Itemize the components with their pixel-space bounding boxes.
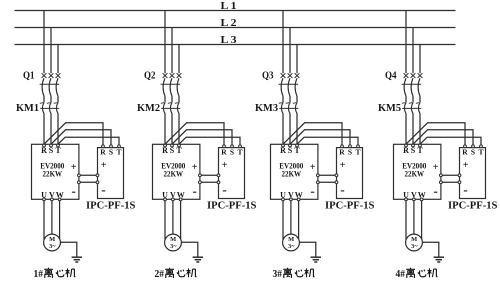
svg-text:1#: 1# [34, 269, 44, 280]
wire [282, 96, 284, 103]
contactor KM1 [40, 103, 59, 114]
wire L3 tap to Q4 pole 3 [419, 45, 421, 74]
contactor KM2 [161, 103, 180, 114]
filter FLT2 IPC-PF-1S [217, 145, 244, 199]
wire [296, 96, 298, 103]
wire W to motor [421, 201, 423, 239]
wire + link [201, 174, 217, 176]
svg-text:22KW: 22KW [282, 168, 302, 178]
label 1#离心机 [34, 268, 76, 280]
svg-text:+: + [463, 160, 469, 171]
svg-text:KM3: KM3 [255, 103, 278, 114]
wire L1 tap to Q3 pole 1 [282, 11, 284, 74]
breaker Q4 [402, 73, 423, 96]
wire [419, 96, 421, 103]
wire [289, 96, 291, 103]
wire S to filter [51, 130, 111, 145]
svg-text:S: S [109, 147, 113, 156]
svg-text:+: + [310, 162, 316, 173]
svg-text:S: S [288, 146, 293, 155]
wire U to motor [43, 201, 45, 240]
svg-text:T: T [417, 146, 423, 155]
svg-text:L 1: L 1 [221, 0, 237, 12]
motor M2 [165, 234, 182, 251]
svg-text:3~: 3~ [411, 243, 418, 250]
wire W to motor [298, 201, 300, 239]
svg-text:KM2: KM2 [137, 103, 160, 114]
svg-text:Q4: Q4 [385, 70, 397, 81]
bus L3 [15, 44, 456, 46]
breaker Q3 [279, 73, 300, 96]
svg-text:22KW: 22KW [405, 168, 425, 178]
wire [178, 113, 180, 144]
wire - link [201, 181, 217, 183]
label 3#离心机 [273, 268, 315, 280]
wire T to filter [297, 137, 358, 145]
wire [412, 96, 414, 103]
filter FLT4 IPC-PF-1S [458, 145, 485, 199]
svg-text:3~: 3~ [288, 243, 295, 250]
wire S to filter [172, 130, 232, 145]
wire [43, 113, 45, 144]
svg-text:S: S [411, 146, 416, 155]
wire - link [80, 181, 96, 183]
wire L2 tap to Q4 pole 2 [412, 28, 414, 74]
wire L2 tap to Q3 pole 2 [289, 28, 291, 74]
wire [50, 96, 52, 103]
svg-text:T: T [237, 147, 242, 156]
motor M3 [283, 234, 300, 251]
svg-text:R: R [221, 147, 227, 156]
wire L3 tap to Q1 pole 3 [57, 45, 59, 74]
svg-text:IPC-PF-1S: IPC-PF-1S [86, 200, 136, 211]
wire [164, 96, 166, 103]
contactor KM3 [279, 103, 298, 114]
wire L1 tap to Q1 pole 1 [43, 11, 45, 74]
svg-text:R: R [100, 147, 106, 156]
svg-text:R: R [403, 146, 409, 155]
wire V to motor [172, 201, 174, 234]
svg-text:Q1: Q1 [23, 70, 35, 81]
svg-text:+: + [71, 162, 77, 173]
wire L1 tap to Q4 pole 1 [405, 11, 407, 74]
svg-text:S: S [230, 147, 234, 156]
svg-text:+: + [222, 160, 228, 171]
svg-text:S: S [49, 146, 54, 155]
wire [171, 96, 173, 103]
motor M4 [406, 234, 423, 251]
bus L1 [15, 10, 456, 12]
svg-text:L 3: L 3 [221, 34, 238, 46]
motor M1 [44, 234, 61, 251]
svg-text:T: T [176, 146, 182, 155]
svg-text:M: M [49, 236, 55, 243]
bus L2 [15, 27, 456, 29]
svg-text:22KW: 22KW [43, 168, 63, 178]
filter FLT3 IPC-PF-1S [335, 145, 362, 199]
wire W to motor [180, 201, 182, 239]
wire motor to ground [60, 242, 76, 256]
wire L3 tap to Q3 pole 3 [296, 45, 298, 74]
breaker Q1 [40, 73, 61, 96]
svg-text:IPC-PF-1S: IPC-PF-1S [448, 200, 498, 211]
svg-text:T: T [116, 147, 121, 156]
wire R to filter [406, 123, 465, 145]
svg-text:IPC-PF-1S: IPC-PF-1S [207, 200, 257, 211]
wire U to motor [164, 201, 166, 240]
wire L3 tap to Q2 pole 3 [178, 45, 180, 74]
inverter U3 EV2000 22KW [271, 144, 320, 201]
wire [57, 113, 59, 144]
svg-text:Q2: Q2 [144, 70, 156, 81]
label 4#离心机 [396, 268, 438, 280]
wire R to filter [283, 123, 342, 145]
inverter U4 EV2000 22KW [394, 144, 443, 201]
contactor KM5 [402, 103, 421, 114]
svg-text:R: R [280, 146, 286, 155]
wire V to motor [51, 201, 53, 234]
wire [419, 113, 421, 144]
svg-text:2#: 2# [155, 269, 165, 280]
svg-text:+: + [433, 162, 439, 173]
wire W to motor [59, 201, 61, 239]
wire [412, 113, 414, 144]
svg-text:KM5: KM5 [378, 103, 401, 114]
wire L2 tap to Q1 pole 2 [50, 28, 52, 74]
breaker Q2 [161, 73, 182, 96]
wire [289, 113, 291, 144]
svg-text:3~: 3~ [49, 243, 56, 250]
wire V to motor [290, 201, 292, 234]
wire - link [442, 181, 458, 183]
svg-text:M: M [170, 236, 176, 243]
svg-text:R: R [41, 146, 47, 155]
wire [43, 96, 45, 103]
wire + link [80, 174, 96, 176]
wire [282, 113, 284, 144]
wire [405, 113, 407, 144]
ground [311, 257, 321, 262]
wire [171, 113, 173, 144]
svg-text:M: M [288, 236, 294, 243]
wire R to filter [44, 123, 103, 145]
svg-text:R: R [462, 147, 468, 156]
wire L1 tap to Q2 pole 1 [164, 11, 166, 74]
wire T to filter [179, 137, 240, 145]
wire motor to ground [299, 242, 315, 256]
svg-text:T: T [55, 146, 61, 155]
svg-text:4#: 4# [396, 269, 406, 280]
label 2#离心机 [155, 268, 197, 280]
svg-text:T: T [355, 147, 360, 156]
wire [178, 96, 180, 103]
wire S to filter [290, 130, 350, 145]
wire L2 tap to Q2 pole 2 [171, 28, 173, 74]
svg-text:KM1: KM1 [16, 103, 39, 114]
inverter U2 EV2000 22KW [153, 144, 202, 201]
svg-text:IPC-PF-1S: IPC-PF-1S [325, 200, 375, 211]
svg-text:3~: 3~ [170, 243, 177, 250]
svg-text:T: T [478, 147, 483, 156]
wire [296, 113, 298, 144]
wire + link [442, 174, 458, 176]
svg-text:R: R [162, 146, 168, 155]
svg-text:R: R [339, 147, 345, 156]
wire U to motor [405, 201, 407, 240]
svg-text:3#: 3# [273, 269, 283, 280]
wire [50, 113, 52, 144]
wire S to filter [413, 130, 473, 145]
wire U to motor [282, 201, 284, 240]
wire + link [319, 174, 335, 176]
svg-text:T: T [294, 146, 300, 155]
svg-text:22KW: 22KW [164, 168, 184, 178]
wire V to motor [413, 201, 415, 234]
svg-text:S: S [170, 146, 175, 155]
svg-text:+: + [192, 162, 198, 173]
svg-text:+: + [101, 160, 107, 171]
ground [72, 257, 82, 262]
wire [164, 113, 166, 144]
wire T to filter [58, 137, 119, 145]
inverter U1 EV2000 22KW [32, 144, 81, 201]
svg-text:L 2: L 2 [221, 17, 238, 29]
wire T to filter [420, 137, 481, 145]
wire - link [319, 181, 335, 183]
wire motor to ground [422, 242, 438, 256]
svg-text:S: S [348, 147, 352, 156]
filter FLT1 IPC-PF-1S [96, 145, 123, 199]
wire [57, 96, 59, 103]
svg-text:+: + [340, 160, 346, 171]
wire R to filter [165, 123, 224, 145]
wire [405, 96, 407, 103]
ground [434, 257, 444, 262]
svg-text:M: M [411, 236, 417, 243]
ground [193, 257, 203, 262]
svg-text:Q3: Q3 [262, 70, 274, 81]
svg-text:S: S [471, 147, 475, 156]
wire motor to ground [181, 242, 197, 256]
